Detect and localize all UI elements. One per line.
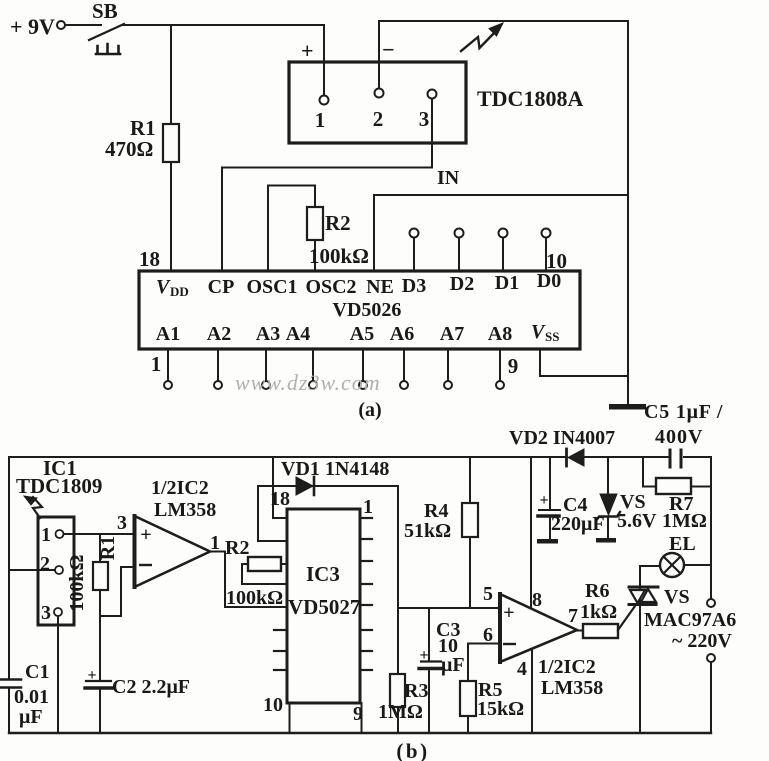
svg-text:VD2 IN4007: VD2 IN4007 [509, 427, 615, 449]
svg-text:R3: R3 [404, 680, 428, 702]
wire pin2 to left border [9, 569, 55, 571]
resistor R2 100k (osc) [307, 207, 323, 240]
diode VD2 IN4007 [565, 449, 568, 466]
pin 1 tick of IC3 [360, 517, 372, 519]
wire R6 to triac gate [618, 606, 635, 630]
wire R1 bottom to op-amp - input [100, 567, 134, 616]
svg-text:15kΩ: 15kΩ [477, 698, 524, 720]
svg-text:400V: 400V [655, 426, 703, 448]
wire R1 to VD5026 pin18 [170, 162, 172, 271]
svg-text:VD1 1N4148: VD1 1N4148 [281, 458, 389, 480]
svg-text:100kΩ: 100kΩ [309, 244, 369, 268]
svg-text:1MΩ: 1MΩ [378, 701, 423, 723]
right pin ticks of IC3 [360, 538, 372, 540]
svg-text:5.6V: 5.6V [617, 510, 657, 532]
pin A6 [403, 349, 405, 381]
svg-text:LM358: LM358 [154, 499, 216, 521]
svg-text:3: 3 [117, 512, 127, 534]
svg-text:+: + [539, 492, 548, 509]
wire R2 left loop to IC3 [242, 564, 287, 584]
svg-text:0.01: 0.01 [14, 686, 49, 708]
svg-text:D3: D3 [402, 275, 426, 297]
antenna arrow [461, 30, 497, 51]
wire - input of op-amp2 to R5 [468, 644, 500, 682]
pin A7 [447, 349, 449, 381]
svg-text:6: 6 [483, 624, 493, 646]
svg-text:2: 2 [40, 553, 50, 575]
ground of circuit a [609, 404, 646, 410]
capacitor C4 220uF [549, 457, 551, 509]
svg-text:220μF: 220μF [551, 513, 605, 535]
op-amp U2a triangle [135, 516, 211, 587]
pin A5 [362, 349, 364, 381]
svg-text:+: + [301, 38, 314, 63]
svg-text:1: 1 [363, 496, 373, 518]
svg-text:2: 2 [373, 107, 384, 131]
svg-text:+: + [503, 602, 514, 624]
svg-text:μF: μF [19, 706, 43, 728]
pin 9 stub of IC3 [361, 703, 363, 733]
wire NE to right rail [374, 195, 628, 271]
resistor R3 1M [390, 674, 405, 707]
node junction R1 top [170, 25, 172, 124]
svg-text:A3: A3 [256, 323, 280, 345]
wire pin 4 to bottom rail [531, 649, 533, 733]
svg-text:NE: NE [366, 276, 394, 298]
svg-text:1: 1 [315, 108, 326, 132]
resistor R4 51k [469, 457, 471, 503]
svg-text:18: 18 [270, 488, 290, 510]
pin 3 of TDC1808A [428, 90, 437, 99]
pin A1 [167, 349, 169, 381]
svg-text:3: 3 [419, 107, 430, 131]
svg-text:OSC1: OSC1 [246, 276, 297, 298]
svg-text:EL: EL [669, 533, 696, 555]
pin 2 of IC1 [55, 566, 63, 574]
svg-text:www.dz3w.com: www.dz3w.com [235, 370, 381, 395]
triac VS MAC97A6 [629, 586, 658, 589]
pin D1 [502, 238, 504, 271]
resistor R2 100k horizontal [242, 563, 248, 565]
IC VD5026 box [139, 271, 580, 349]
svg-text:A1: A1 [156, 323, 180, 345]
pin 1 of TDC1808A [320, 96, 329, 105]
svg-text:VS: VS [664, 586, 690, 608]
svg-text:SS: SS [545, 329, 559, 344]
svg-text:A6: A6 [390, 323, 414, 345]
svg-text:4: 4 [517, 658, 527, 680]
wire top rail to pin1 [122, 25, 324, 95]
capacitor C3 10uF [428, 608, 430, 661]
svg-text:OSC2: OSC2 [305, 276, 356, 298]
svg-text:3: 3 [41, 602, 51, 624]
svg-text:D1: D1 [495, 272, 519, 294]
wire VD1 anode loop to IC3 [258, 486, 287, 541]
svg-text:VD5026: VD5026 [333, 299, 402, 321]
svg-text:(a): (a) [358, 399, 381, 421]
svg-text:8: 8 [532, 589, 542, 611]
terminal lower ~220V [707, 654, 715, 662]
svg-text:18: 18 [139, 247, 160, 271]
IC TDC1808A box [289, 62, 466, 143]
svg-text:CP: CP [208, 276, 235, 298]
pin A4 [312, 349, 314, 381]
wire VD1 cathode down through R3 node [397, 486, 399, 674]
svg-text:1: 1 [151, 352, 162, 376]
svg-text:470Ω: 470Ω [105, 137, 153, 161]
wire + input net of op-amp2 [398, 607, 500, 609]
svg-text:SB: SB [92, 0, 118, 23]
pin 10 stub of IC3 [289, 703, 291, 733]
wire op-amp2 output [577, 630, 583, 632]
pin D0 [545, 238, 547, 271]
pin A3 [265, 349, 267, 381]
pin D3 [413, 238, 415, 271]
wire pin 8 to top rail [530, 457, 532, 608]
diode VD1 1N4148 [258, 485, 398, 487]
svg-text:C1: C1 [25, 661, 49, 683]
svg-text:R1: R1 [97, 536, 119, 560]
wire [65, 24, 101, 26]
svg-text:C2 2.2μF: C2 2.2μF [112, 676, 190, 698]
svg-text:μF: μF [441, 654, 465, 676]
svg-text:DD: DD [170, 284, 189, 299]
svg-text:−: − [382, 37, 395, 62]
op-amp U2b triangle [500, 594, 577, 662]
svg-text:10: 10 [263, 694, 283, 716]
wire R1 bottom to C2 [99, 590, 101, 680]
resistor R6 71k [583, 624, 618, 638]
left border wire [8, 457, 10, 678]
svg-text:+: + [419, 647, 428, 664]
pin A2 [217, 349, 219, 381]
svg-text:(b): (b) [396, 739, 429, 761]
wire lower terminal to bottom rail [710, 662, 712, 733]
pin 1 of IC1 [56, 530, 64, 538]
zener diode VS 5.6V [607, 457, 609, 494]
svg-text:A5: A5 [350, 323, 374, 345]
svg-text:1/2IC2: 1/2IC2 [538, 656, 596, 678]
svg-text:+: + [87, 667, 96, 684]
svg-text:~ 220V: ~ 220V [672, 630, 732, 652]
wire pin3 down to bottom rail [57, 616, 59, 733]
lamp EL [640, 565, 660, 567]
svg-text:1MΩ: 1MΩ [662, 510, 707, 532]
wire OSC1 loop [268, 186, 315, 272]
svg-text:9: 9 [353, 703, 363, 725]
svg-text:5: 5 [483, 583, 493, 605]
switch SB pushbutton actuator [96, 44, 120, 54]
pin 2 of TDC1808A [378, 21, 380, 88]
pin D2 [458, 238, 460, 271]
IC3 VD5027 box [287, 509, 360, 703]
ground below C4 [537, 539, 558, 544]
svg-text:1: 1 [210, 532, 220, 554]
pin A8 [499, 349, 501, 381]
wire pin18 from top rail [273, 457, 287, 518]
svg-text:IC3: IC3 [306, 562, 340, 586]
resistor R5 15k [460, 681, 476, 716]
svg-text:1/2IC2: 1/2IC2 [151, 477, 209, 499]
IC1 TDC1809 box [38, 517, 74, 625]
wire triac vertical [639, 566, 641, 733]
bottom rail of circuit b [9, 732, 711, 734]
svg-text:R2: R2 [325, 211, 351, 235]
svg-text:IN: IN [437, 167, 460, 189]
svg-text:+: + [140, 524, 151, 546]
svg-text:1kΩ: 1kΩ [580, 601, 617, 623]
resistor R7 1M [643, 457, 656, 487]
svg-text:LM358: LM358 [541, 677, 603, 699]
resistor R1 470ohm [163, 124, 179, 162]
svg-text:MAC97A6: MAC97A6 [644, 609, 736, 631]
switch SB blade [89, 24, 124, 40]
svg-text:C5 1μF /: C5 1μF / [644, 401, 723, 423]
wire op-amp1 output to IC3 [210, 552, 287, 608]
wire right rail down [627, 21, 629, 405]
wire R2 to OSC2 [314, 240, 316, 271]
svg-text:TDC1809: TDC1809 [16, 474, 102, 498]
resistor R1 100k vertical [99, 534, 101, 562]
left pin ticks of IC3 [274, 629, 287, 631]
wire Vss to right rail [540, 349, 628, 376]
svg-text:A7: A7 [440, 323, 464, 345]
svg-text:D0: D0 [537, 270, 561, 292]
ground below zener [596, 538, 616, 543]
pin 3 of IC1 [54, 608, 62, 616]
top rail of circuit b [9, 456, 566, 458]
svg-text:TDC1808A: TDC1808A [477, 86, 583, 111]
antenna of IC1 [33, 497, 42, 518]
svg-text:VD5027: VD5027 [288, 595, 360, 619]
svg-text:+ 9V: + 9V [10, 14, 55, 39]
capacitor C2 2.2uF [86, 680, 111, 682]
svg-text:V: V [531, 321, 546, 343]
battery terminal +9V [57, 21, 65, 29]
svg-text:51kΩ: 51kΩ [404, 520, 451, 542]
svg-text:R6: R6 [585, 580, 609, 602]
svg-text:9: 9 [508, 354, 519, 378]
svg-text:A8: A8 [488, 323, 512, 345]
wire antenna rail [379, 20, 628, 22]
svg-text:A4: A4 [286, 323, 310, 345]
svg-text:100kΩ: 100kΩ [226, 587, 283, 609]
svg-text:R4: R4 [424, 500, 448, 522]
capacitor C5 1uF/400V [669, 450, 672, 467]
right edge wire [710, 457, 712, 599]
svg-text:D2: D2 [450, 273, 474, 295]
wire pin3 to CP [222, 168, 432, 272]
capacitor C1 0.01uF [0, 678, 21, 681]
terminal upper ~220V [707, 599, 715, 607]
wire pin1 to op-amp + input [64, 533, 135, 535]
svg-text:A2: A2 [207, 323, 231, 345]
svg-text:7: 7 [568, 605, 578, 627]
svg-text:R2: R2 [225, 537, 249, 559]
svg-text:100kΩ: 100kΩ [66, 554, 88, 611]
svg-text:1: 1 [41, 524, 51, 546]
svg-text:V: V [156, 276, 171, 298]
